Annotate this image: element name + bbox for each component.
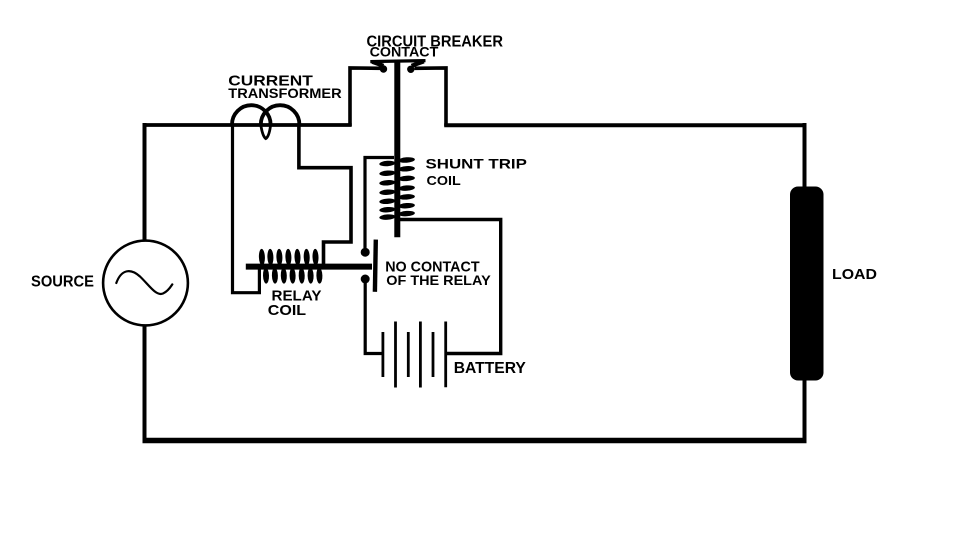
svg-text:SOURCE: SOURCE bbox=[31, 274, 94, 291]
wire: top horizontal right segment bbox=[444, 123, 804, 127]
label SHUNT TRIP COIL bbox=[426, 156, 527, 189]
svg-text:COIL: COIL bbox=[268, 302, 306, 319]
svg-text:BATTERY: BATTERY bbox=[454, 360, 527, 377]
wire: top horizontal left segment bbox=[143, 123, 352, 127]
wire: top-left riser from source to top wire bbox=[143, 123, 147, 242]
wire: NO contact bottom terminal down to battery left bbox=[365, 281, 381, 354]
wire: right vertical lower bbox=[803, 378, 807, 443]
svg-text:SHUNT TRIP: SHUNT TRIP bbox=[426, 156, 527, 172]
load RL (filled block) bbox=[790, 187, 824, 381]
svg-text:LOAD: LOAD bbox=[832, 266, 877, 283]
label NO CONTACT OF THE RELAY bbox=[385, 259, 491, 289]
svg-text:OF THE RELAY: OF THE RELAY bbox=[386, 272, 491, 288]
relay K1 armature line bbox=[246, 264, 372, 270]
current transformer T1 primary loops bbox=[232, 105, 299, 138]
wire: shunt coil bottom to battery right bbox=[397, 220, 501, 354]
svg-text:TRANSFORMER: TRANSFORMER bbox=[228, 86, 342, 101]
label CURRENT TRANSFORMER bbox=[228, 73, 342, 102]
shunt trip plunger (thick line to breaker) bbox=[394, 61, 400, 237]
relay coil K1 bbox=[259, 249, 323, 284]
svg-text:COIL: COIL bbox=[427, 173, 461, 188]
node: NO contact bottom terminal bbox=[361, 275, 370, 284]
node: NO contact top terminal bbox=[361, 248, 370, 257]
wire: breaker left riser bbox=[350, 68, 382, 126]
wire: CT secondary right lead with jogs bbox=[299, 125, 351, 264]
wire: CT secondary left lead down to relay coil bbox=[233, 126, 260, 293]
wire: bottom horizontal bbox=[143, 438, 807, 444]
label CIRCUIT BREAKER CONTACT bbox=[367, 33, 504, 59]
label RELAY COIL bbox=[268, 288, 322, 320]
shunt trip coil L1 bbox=[379, 157, 415, 221]
wire: right vertical upper bbox=[803, 123, 807, 189]
battery BT1 bbox=[383, 322, 446, 388]
source V1 (AC source circle) bbox=[103, 241, 188, 326]
wire: from NO contact top terminal up to shunt coil top bbox=[365, 158, 394, 249]
wire: left vertical lower bbox=[143, 325, 147, 443]
svg-text:CONTACT: CONTACT bbox=[370, 45, 439, 60]
circuit breaker contact CB1 bbox=[370, 61, 425, 73]
wire: breaker right riser bbox=[415, 68, 447, 126]
relay NO contact bar bbox=[373, 240, 378, 292]
